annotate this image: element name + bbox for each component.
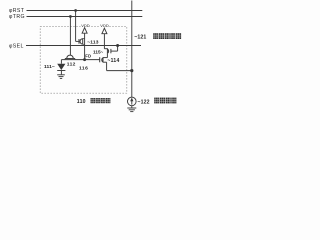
svg-text:~114: ~114 [107, 58, 119, 64]
svg-text:~122: ~122 [137, 99, 149, 105]
svg-text:~121: ~121 [134, 35, 146, 41]
svg-text:VDD: VDD [81, 23, 90, 28]
svg-text:FD: FD [85, 54, 91, 59]
svg-text:116: 116 [79, 65, 88, 71]
svg-text:111~: 111~ [44, 64, 55, 70]
svg-text:VDD: VDD [100, 23, 109, 28]
svg-text:115~: 115~ [93, 49, 104, 54]
svg-text:112: 112 [67, 61, 76, 67]
svg-text:φSEL: φSEL [9, 43, 24, 49]
svg-text:110: 110 [77, 99, 86, 105]
svg-text:φTRG: φTRG [9, 14, 25, 20]
svg-text:~113: ~113 [87, 39, 98, 45]
